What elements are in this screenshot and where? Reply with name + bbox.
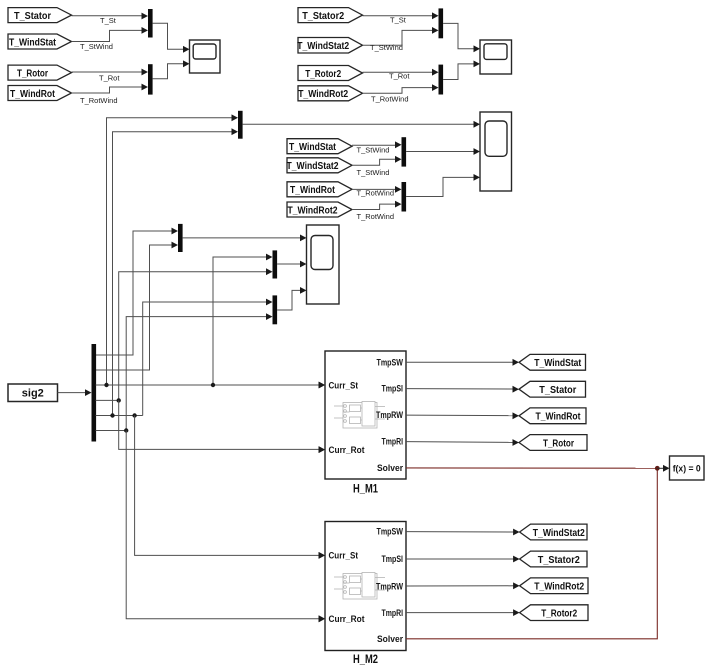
wire T_WindRot2 to mux Mx2R [363, 84, 439, 93]
wire junction to algebraic constraint [657, 465, 669, 472]
mux Mx1L [148, 9, 153, 38]
svg-text:T_WindStat2: T_WindStat2 [287, 161, 339, 172]
wire demux out2 up to mux MA input 2 [96, 242, 178, 370]
wire mux Mx1L to scope S1 input 1 [153, 23, 190, 53]
wire H_M2 TmpRI to goto T_Rotor2 [406, 609, 519, 616]
svg-text:T_St: T_St [100, 16, 117, 25]
goto block T_WindRot [519, 408, 586, 424]
svg-text:TmpRW: TmpRW [376, 410, 403, 420]
wire T_Stator to mux Mx1L [72, 13, 149, 20]
signal label T_RotWind mid 1 [357, 189, 395, 198]
mux Mx2R [439, 65, 444, 95]
wire T_WindStat to mux Mx1L [72, 27, 149, 42]
signal label T_StWind [80, 42, 113, 51]
wire T_WindRot to mux Mx2L [72, 84, 149, 93]
svg-text:T_StWind: T_StWind [80, 42, 113, 51]
wire mux M3 to scope S3 input 1 [243, 121, 480, 128]
svg-text:Curr_Rot: Curr_Rot [329, 445, 365, 455]
wire mux M4b to scope S3 input 3 [406, 174, 480, 197]
junction node3 B [211, 383, 215, 387]
wire T_Rotor to mux Mx2L [72, 69, 149, 76]
scope S3 [480, 112, 512, 191]
svg-text:TmpSW: TmpSW [377, 358, 404, 368]
svg-text:Solver: Solver [377, 634, 403, 644]
svg-text:sig2: sig2 [22, 388, 44, 400]
wire H_M1 TmpRI to goto T_Rotor [406, 439, 519, 446]
wire H_M2 TmpSI to goto T_Stator2 [406, 556, 519, 563]
goto block T_WindRot2 [520, 578, 588, 594]
goto block T_Rotor2 [520, 605, 588, 621]
junction node6 [124, 428, 128, 432]
from block T_WindStat mid [287, 139, 352, 154]
wire mux MA to scope S4 input 1 [183, 235, 307, 242]
from block T_Stator2 [298, 8, 363, 23]
svg-text:T_Rot: T_Rot [99, 74, 120, 83]
svg-text:T_Rotor2: T_Rotor2 [305, 69, 341, 80]
svg-text:T_StWind: T_StWind [357, 168, 390, 177]
wire mux M4a to scope S3 input 2 [406, 148, 480, 155]
svg-text:T_RotWind: T_RotWind [80, 96, 118, 105]
signal label T_RotWind right [371, 94, 409, 103]
from block T_WindStat2 mid [287, 158, 353, 173]
wire node4 branch up to mux MB input 2 [119, 268, 273, 400]
svg-text:Curr_Rot: Curr_Rot [329, 614, 365, 624]
from block T_Stator [8, 8, 72, 23]
svg-text:T_StWind: T_StWind [370, 43, 403, 52]
wire demux out3 to H_M1 Curr_St [96, 382, 325, 389]
label H_M1 [353, 482, 378, 496]
wire H_M2 TmpRW to goto T_WindRot2 [406, 582, 519, 589]
svg-text:T_WindRot: T_WindRot [536, 412, 582, 423]
from block T_WindRot2 mid [287, 202, 352, 217]
wire T_WindStat mid to mux M4a [352, 141, 402, 148]
svg-text:T_Rotor2: T_Rotor2 [541, 608, 577, 619]
from block T_Rotor2 [298, 66, 363, 81]
svg-text:T_St: T_St [390, 15, 407, 24]
svg-text:TmpSl: TmpSl [382, 554, 404, 564]
wire mux MB to scope S4 input 2 [277, 261, 306, 268]
svg-text:Curr_St: Curr_St [329, 551, 359, 561]
svg-text:T_WindStat: T_WindStat [9, 37, 57, 48]
svg-text:TmpRW: TmpRW [376, 582, 403, 592]
wire node4 down to H_M1 Curr_Rot [119, 400, 325, 453]
signal label T_St [100, 16, 117, 25]
wire sig2 to demux D [58, 389, 92, 396]
wire node5 branch up to mux M3 input 2 [113, 128, 239, 415]
wire T_WindRot2 mid to mux M4b [352, 201, 402, 210]
goto block T_Stator2 [520, 551, 587, 567]
algebraic constraint block f(x) = 0 [670, 456, 705, 480]
svg-text:T_StWind: T_StWind [357, 145, 390, 154]
svg-text:T_Stator: T_Stator [14, 11, 51, 22]
svg-text:T_WindStat2: T_WindStat2 [533, 528, 585, 539]
svg-text:Solver: Solver [377, 463, 403, 473]
goto block T_Stator [519, 381, 586, 397]
svg-text:T_WindRot2: T_WindRot2 [288, 205, 338, 216]
signal label T_Rot [99, 74, 120, 83]
wire demux out5 [96, 415, 143, 417]
wire H_M1 TmpSW to goto T_WindStat [406, 359, 519, 366]
wire node5 branch up to mux MC input 1 [143, 299, 273, 416]
junction node5 A [110, 413, 114, 417]
svg-text:T_RotWind: T_RotWind [357, 189, 395, 198]
svg-text:T_WindStat: T_WindStat [289, 142, 337, 153]
source block sig2 [8, 384, 58, 402]
svg-text:f(x) = 0: f(x) = 0 [673, 464, 701, 475]
signal label T_Rot right [389, 72, 410, 81]
wire H_M1 TmpRW to goto T_WindRot [406, 412, 519, 419]
svg-text:H_M1: H_M1 [353, 482, 378, 496]
wire node6 branch up to mux MC input 2 [126, 313, 272, 430]
mux M3 [238, 111, 243, 139]
junction solver node (dark red) [655, 466, 660, 471]
signal label T_StWind mid 2 [357, 168, 390, 177]
wire node5 down to H_M2 Curr_St [135, 416, 325, 559]
mux MB [273, 250, 278, 278]
wire H_M1 TmpSI to goto T_Stator [406, 386, 519, 393]
svg-text:TmpRl: TmpRl [382, 608, 404, 618]
signal label T_StWind mid 1 [357, 145, 390, 154]
svg-text:TmpRl: TmpRl [382, 437, 404, 447]
junction node3 A [104, 383, 108, 387]
mux MC [273, 295, 278, 324]
from block T_WindRot [8, 86, 72, 101]
wire node6 down to H_M2 Curr_Rot [126, 431, 325, 623]
mux M4a [402, 137, 407, 166]
svg-text:T_Stator2: T_Stator2 [302, 11, 344, 22]
svg-text:T_RotWind: T_RotWind [357, 212, 395, 221]
svg-text:T_WindStat: T_WindStat [534, 358, 582, 369]
wire demux out4 [96, 399, 119, 401]
wire T_WindStat2 mid to mux M4a [352, 156, 402, 165]
wire H_M1 Solver to junction (dark red) [406, 467, 657, 469]
subsystem H_M2 [319, 522, 406, 651]
svg-text:T_WindRot: T_WindRot [290, 185, 336, 196]
signal label T_RotWind mid 2 [357, 212, 395, 221]
svg-text:T_RotWind: T_RotWind [371, 94, 409, 103]
mux MA [178, 224, 183, 252]
wire demux out1 up to mux MA input 1 [96, 228, 178, 355]
svg-text:T_Rotor: T_Rotor [17, 68, 48, 79]
scope S4 [307, 225, 340, 304]
mux Mx2L [148, 64, 153, 94]
svg-text:H_M2: H_M2 [353, 652, 378, 666]
scope S2 [480, 40, 512, 74]
wire H_M2 TmpSW to goto T_WindStat2 [406, 529, 519, 536]
from block T_WindRot2 [298, 86, 363, 101]
signal label T_St right [390, 15, 407, 24]
wire T_WindRot mid to mux M4b [352, 186, 402, 193]
from block T_WindStat2 [297, 38, 362, 54]
svg-text:T_WindRot: T_WindRot [10, 89, 56, 100]
mux M4b [402, 182, 407, 212]
junction node5 B [132, 413, 136, 417]
from block T_WindStat [8, 34, 72, 49]
wire H_M2 Solver to junction (dark red) [406, 468, 657, 639]
svg-text:TmpSW: TmpSW [377, 527, 404, 537]
svg-text:T_Rot: T_Rot [389, 72, 410, 81]
signal label T_RotWind [80, 96, 118, 105]
wire T_Stator2 to mux Mx1R [363, 12, 439, 19]
from block T_Rotor [8, 65, 72, 80]
wire T_WindStat2 to mux Mx1R [363, 27, 439, 45]
subsystem H_M1 [319, 351, 406, 479]
svg-text:T_Rotor: T_Rotor [543, 438, 574, 449]
svg-text:TmpSl: TmpSl [382, 384, 404, 394]
svg-text:T_WindStat2: T_WindStat2 [297, 41, 349, 52]
mux Mx1R [439, 8, 444, 38]
from block T_WindRot mid [287, 182, 352, 197]
wire node3 branch up to mux M3 input 1 [107, 114, 239, 385]
svg-text:Curr_St: Curr_St [329, 380, 359, 390]
wire mux Mx2R to scope S2 input 2 [443, 61, 480, 80]
wire mux MC to scope S4 input 3 [277, 287, 306, 310]
wire node3 branch up to mux MB input 1 [213, 254, 273, 385]
svg-text:T_WindRot2: T_WindRot2 [298, 89, 348, 100]
signal label T_StWind right [370, 43, 403, 52]
svg-text:T_WindRot2: T_WindRot2 [534, 582, 584, 593]
label H_M2 [353, 652, 378, 666]
wire mux Mx1R to scope S2 input 1 [443, 23, 480, 52]
svg-text:T_Stator: T_Stator [539, 385, 576, 396]
demux D [92, 344, 97, 442]
wire mux Mx2L to scope S1 input 2 [153, 60, 190, 78]
goto block T_WindStat2 [520, 524, 587, 540]
svg-text:T_Stator2: T_Stator2 [538, 555, 580, 566]
wire T_Rotor2 to mux Mx2R [363, 69, 439, 76]
wire demux out6 [96, 430, 127, 432]
goto block T_WindStat [519, 354, 586, 370]
junction node4 [117, 398, 121, 402]
goto block T_Rotor [519, 435, 587, 451]
scope S1 [190, 40, 221, 73]
